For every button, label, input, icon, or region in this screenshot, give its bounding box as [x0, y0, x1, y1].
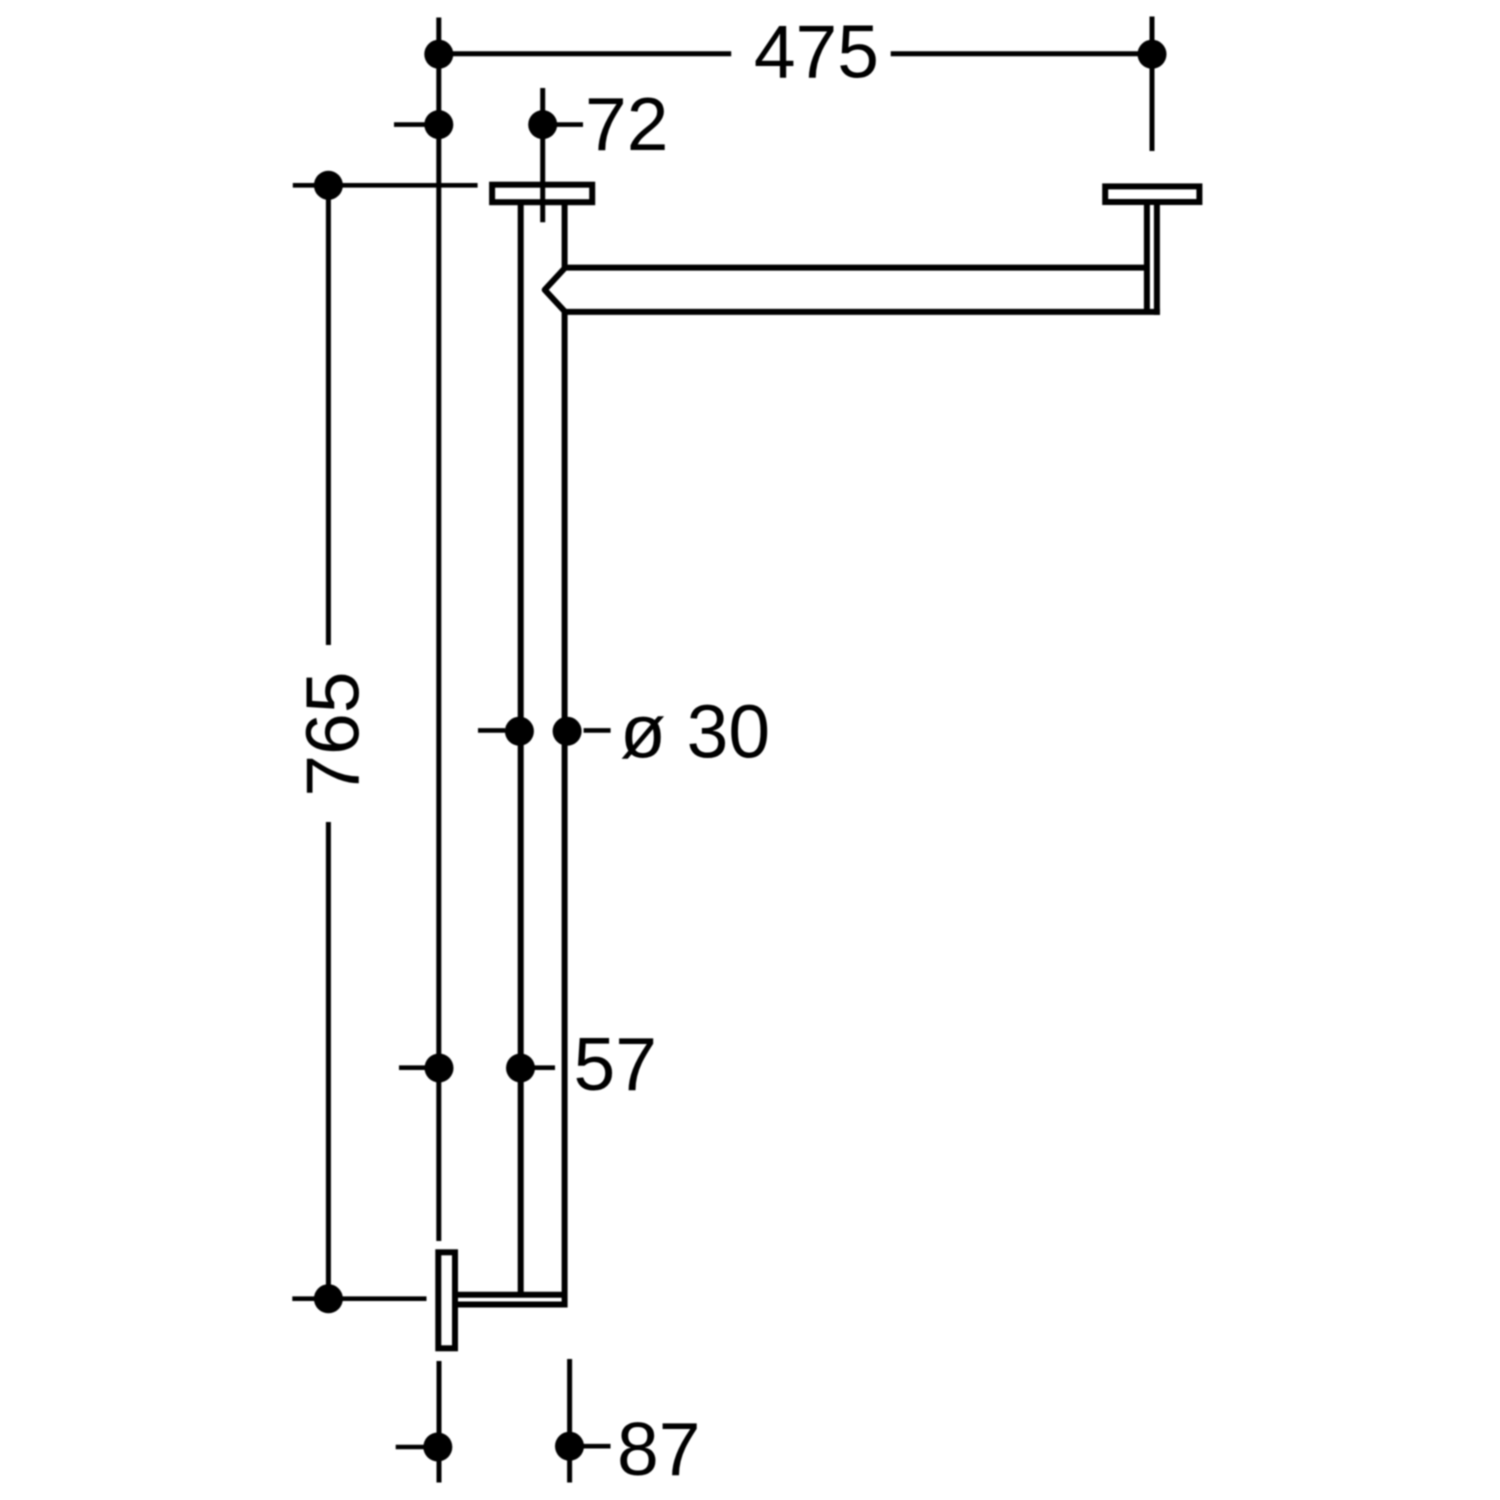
dimension line vertical left (475/72/57 reference) — [436, 18, 441, 1242]
rail stem left line (right support) — [1144, 203, 1150, 309]
svg-text:ø 30: ø 30 — [620, 690, 770, 774]
post right edge upper segment — [562, 203, 568, 268]
svg-text:72: 72 — [585, 82, 668, 166]
tick 765 top — [293, 183, 478, 188]
dot 475 right — [1138, 40, 1167, 69]
dot dia30 right — [553, 717, 582, 746]
svg-text:57: 57 — [574, 1022, 657, 1106]
dot 72 left — [424, 110, 453, 139]
tick 87 right — [583, 1444, 611, 1449]
rail stem right line (right support) — [1154, 203, 1160, 315]
rail body fill — [545, 268, 1160, 312]
dimension line vertical right (475 right end) — [1150, 17, 1155, 152]
tick dia30 right — [584, 728, 611, 733]
dimension line 475 left segment — [439, 51, 731, 56]
wall flange top left — [492, 185, 592, 203]
dot 57 left — [425, 1054, 454, 1083]
dimension line 765 lower segment — [326, 822, 331, 1299]
dot dia30 left — [505, 717, 534, 746]
svg-text:87: 87 — [617, 1407, 700, 1491]
post left edge — [518, 203, 524, 1293]
tick 87 left — [396, 1445, 424, 1450]
wall flange top right — [1105, 186, 1199, 202]
dot 72 right — [528, 110, 557, 139]
dimension line vertical 87 right — [567, 1359, 572, 1483]
dot 87 left — [423, 1433, 452, 1462]
dimension line vertical 87 left — [437, 1361, 442, 1483]
dimension line vertical 72 (flange centerline) — [540, 88, 545, 222]
dot 765 top — [314, 171, 343, 200]
tick 72 right — [557, 122, 583, 127]
dot 475 left — [424, 40, 453, 69]
floor flange bottom — [438, 1252, 455, 1348]
tick 765 bottom — [292, 1296, 426, 1301]
dot 57 right — [506, 1054, 535, 1083]
post right edge lower segment — [562, 312, 568, 1308]
foot arm bottom line — [456, 1302, 565, 1308]
foot arm top line — [456, 1292, 565, 1298]
svg-text:475: 475 — [754, 10, 879, 94]
dot 87 right — [555, 1432, 584, 1461]
tick 57 right — [535, 1065, 556, 1070]
tick dia30 left — [478, 728, 505, 733]
svg-text:765: 765 — [291, 671, 375, 796]
tick 72 left — [394, 122, 425, 127]
rail outline (top edge, pointed tip, bottom edge) — [545, 268, 1160, 312]
dimension line 475 right segment — [891, 51, 1152, 56]
tick 57 left — [399, 1065, 425, 1070]
dimension line 765 upper segment — [326, 185, 331, 645]
dot 765 bottom — [314, 1284, 343, 1313]
